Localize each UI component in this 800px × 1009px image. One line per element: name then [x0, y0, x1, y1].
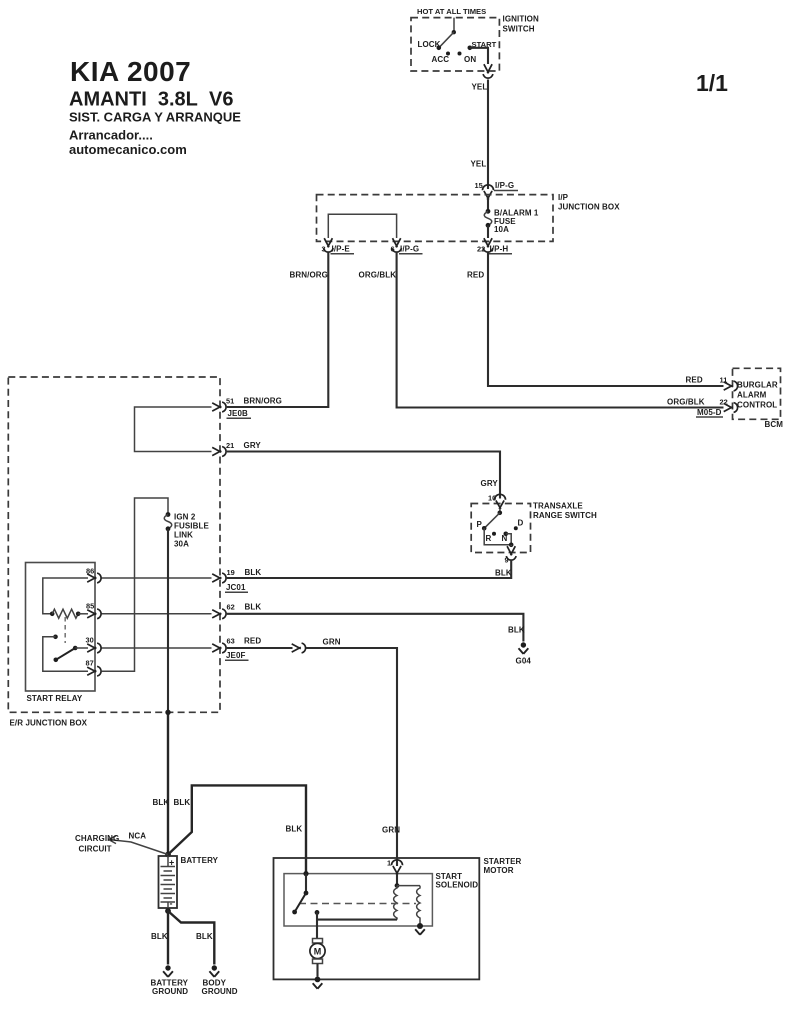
svg-text:87: 87: [86, 659, 94, 668]
svg-text:I/P: I/P: [558, 193, 569, 202]
starter motor M: [310, 939, 325, 977]
svg-text:JE0B: JE0B: [228, 409, 249, 418]
svg-text:IGN 2: IGN 2: [174, 513, 196, 522]
svg-text:1: 1: [387, 859, 391, 868]
svg-text:BLK: BLK: [153, 798, 170, 807]
wire BLK pin 62 to ground G04: [227, 614, 524, 642]
svg-text:BLK: BLK: [495, 569, 512, 578]
svg-text:IGNITION: IGNITION: [503, 15, 539, 24]
svg-text:I/P-G: I/P-G: [400, 245, 419, 254]
svg-text:9: 9: [505, 556, 509, 565]
wire RED to BCM pin 11: [467, 253, 724, 387]
transaxle range switch box: [471, 502, 597, 553]
svg-text:GRY: GRY: [481, 479, 499, 488]
svg-text:HOT AT ALL TIMES: HOT AT ALL TIMES: [417, 7, 486, 16]
connector BCM pin 22 M05-D: [667, 398, 738, 418]
solenoid mechanical link: [299, 903, 416, 905]
svg-text:G04: G04: [516, 657, 532, 666]
svg-text:KIA 2007: KIA 2007: [70, 56, 191, 87]
svg-text:YEL: YEL: [472, 83, 488, 92]
connector E/R pin 63 JE0F: [212, 637, 261, 661]
wire YEL vertical: [471, 80, 489, 190]
solenoid coil feed: [395, 874, 420, 888]
connector BCM pin 11: [686, 376, 738, 391]
svg-text:GRN: GRN: [323, 638, 341, 647]
svg-text:15: 15: [475, 181, 483, 190]
E/R junction box: [8, 377, 220, 728]
wire relay 87 to fusible link: [102, 498, 169, 671]
svg-text:M05-D: M05-D: [697, 408, 722, 417]
battery positive junction: [165, 852, 171, 858]
svg-text:JE0F: JE0F: [226, 651, 246, 660]
svg-text:JC01: JC01: [226, 583, 246, 592]
battery negative junction: [165, 908, 171, 914]
svg-text:BRN/ORG: BRN/ORG: [290, 271, 328, 280]
wire START to ignition connector: [470, 48, 488, 64]
svg-text:CONTROL: CONTROL: [737, 401, 777, 410]
wire battery to starter BLK: [168, 785, 306, 873]
relay pin 30 connector: [86, 636, 102, 653]
connector E/R pin 51 JE0B: [212, 397, 282, 419]
svg-text:BLK: BLK: [196, 932, 213, 941]
wire battery to battery ground: [151, 908, 168, 965]
svg-text:-: -: [170, 899, 173, 909]
svg-text:21: 21: [226, 441, 234, 450]
starter motor box: [274, 857, 522, 979]
svg-text:19: 19: [227, 568, 235, 577]
connector pin 22 I/P-H: [477, 238, 512, 254]
svg-text:ORG/BLK: ORG/BLK: [359, 271, 397, 280]
svg-text:10A: 10A: [494, 225, 509, 234]
I/P junction box: [317, 193, 621, 241]
svg-text:LINK: LINK: [174, 531, 193, 540]
svg-text:RED: RED: [686, 376, 703, 385]
wire fusible link down to battery: [167, 529, 169, 713]
start solenoid box: [284, 872, 478, 926]
connector E/R pin 19 JC01: [212, 568, 261, 592]
connector pin 3 I/P-E: [322, 238, 355, 254]
battery ground: [151, 965, 189, 996]
E/R internal wire pin 63 to relay 30: [102, 647, 212, 649]
relay pin 85 connector: [86, 602, 101, 619]
relay switch: [43, 635, 88, 672]
svg-text:6: 6: [391, 245, 395, 254]
E/R internal wire pin 62 to relay 85: [102, 613, 212, 615]
svg-text:M: M: [314, 947, 322, 957]
svg-text:BLK: BLK: [508, 626, 525, 635]
svg-text:63: 63: [227, 637, 235, 646]
start relay box: [26, 563, 96, 704]
connector E/R pin 21 GRY: [212, 441, 261, 456]
E/R internal wire pin 19 to relay 86: [102, 577, 212, 579]
ignition switch box: [411, 7, 539, 71]
svg-text:GRN: GRN: [382, 826, 400, 835]
relay coil wiring from 86: [43, 578, 88, 614]
svg-text:GROUND: GROUND: [202, 987, 238, 996]
svg-text:YEL: YEL: [471, 160, 487, 169]
svg-text:ORG/BLK: ORG/BLK: [667, 398, 705, 407]
E/R internal bus 51 to 21: [135, 407, 212, 452]
svg-text:1/1: 1/1: [696, 70, 728, 96]
junction at E/R box edge: [165, 710, 170, 715]
svg-text:LOCK: LOCK: [418, 40, 441, 49]
solenoid pull-in coil: [394, 886, 397, 920]
svg-text:ON: ON: [464, 55, 476, 64]
svg-text:ACC: ACC: [432, 55, 450, 64]
solenoid hold-in coil: [417, 886, 420, 926]
relay coil: [50, 609, 88, 618]
NCA charging circuit arrow: [75, 832, 168, 855]
svg-text:automecanico.com: automecanico.com: [69, 142, 187, 157]
svg-text:P: P: [477, 520, 483, 529]
svg-text:E/R JUNCTION BOX: E/R JUNCTION BOX: [10, 719, 88, 728]
svg-text:22: 22: [477, 245, 485, 254]
svg-text:START RELAY: START RELAY: [27, 694, 83, 703]
svg-text:BCM: BCM: [765, 420, 784, 429]
title block: [69, 56, 241, 157]
svg-text:62: 62: [227, 603, 235, 612]
connector pin 15 I/P-G: [475, 181, 519, 200]
battery: [159, 856, 219, 909]
svg-text:CIRCUIT: CIRCUIT: [79, 845, 112, 854]
ignition switch contacts: [418, 18, 497, 64]
svg-text:GROUND: GROUND: [152, 987, 188, 996]
svg-text:RED: RED: [244, 637, 261, 646]
burglar alarm control box BCM: [733, 368, 784, 429]
svg-text:STARTER: STARTER: [484, 857, 522, 866]
solenoid switch: [292, 871, 308, 914]
svg-text:BLK: BLK: [151, 932, 168, 941]
svg-text:I/P-E: I/P-E: [332, 245, 351, 254]
svg-text:SIST. CARGA Y ARRANQUE: SIST. CARGA Y ARRANQUE: [69, 110, 241, 125]
connector starter pin 1: [387, 859, 403, 875]
svg-text:Arrancador....: Arrancador....: [69, 128, 153, 143]
starter motor ground: [313, 977, 323, 989]
svg-text:3: 3: [322, 245, 326, 254]
svg-text:CHARGING: CHARGING: [75, 834, 119, 843]
I/P internal bus wire pins 3-6: [328, 214, 396, 238]
svg-text:+: +: [169, 858, 174, 868]
connector E/R pin 62: [212, 603, 261, 619]
svg-text:NCA: NCA: [129, 832, 147, 841]
svg-text:SOLENOID: SOLENOID: [436, 881, 479, 890]
svg-text:D: D: [518, 519, 524, 528]
svg-text:RED: RED: [467, 271, 484, 280]
svg-text:MOTOR: MOTOR: [484, 866, 514, 875]
wire battery to body ground: [168, 911, 214, 965]
svg-text:BLK: BLK: [245, 603, 262, 612]
connector pin 9 transaxle: [505, 546, 517, 564]
wire RED/GRN pin 63 to starter: [227, 638, 397, 867]
relay mechanical link: [64, 617, 66, 643]
svg-text:SWITCH: SWITCH: [503, 25, 535, 34]
svg-text:TRANSAXLE: TRANSAXLE: [533, 502, 583, 511]
svg-text:BATTERY: BATTERY: [181, 856, 219, 865]
svg-text:85: 85: [86, 602, 94, 611]
relay pin 86 connector: [86, 567, 101, 583]
svg-text:JUNCTION BOX: JUNCTION BOX: [558, 203, 620, 212]
wire GRY to transaxle range switch: [227, 452, 500, 503]
ground G04: [508, 626, 531, 666]
svg-text:FUSIBLE: FUSIBLE: [174, 522, 209, 531]
wire BRN/ORG to E/R pin 51: [227, 253, 328, 408]
svg-text:BLK: BLK: [245, 568, 262, 577]
connector ignition switch output: [483, 64, 493, 78]
svg-text:30A: 30A: [174, 540, 189, 549]
svg-text:R: R: [486, 534, 492, 543]
svg-text:BLK: BLK: [174, 798, 191, 807]
svg-text:AMANTI 3.8L V6: AMANTI 3.8L V6: [69, 89, 233, 111]
svg-text:N: N: [502, 534, 508, 543]
wire BLK labels above battery: [153, 798, 191, 807]
svg-text:51: 51: [226, 397, 234, 406]
wire BLK pin 9 to E/R pin 19: [227, 560, 512, 578]
transaxle switch arm and contacts: [477, 509, 524, 548]
wire ORG/BLK to BCM pin 22: [359, 253, 724, 408]
svg-text:BRN/ORG: BRN/ORG: [244, 397, 282, 406]
svg-text:BURGLAR: BURGLAR: [737, 381, 778, 390]
connector pin 6 I/P-G: [391, 238, 423, 254]
svg-text:GRY: GRY: [244, 441, 262, 450]
connector pin 10 transaxle: [495, 494, 506, 509]
svg-text:BLK: BLK: [286, 825, 303, 834]
fusible link IGN 2 30A: [164, 512, 209, 548]
solenoid output contact to motor: [315, 910, 397, 939]
svg-text:I/P-G: I/P-G: [495, 181, 514, 190]
svg-text:ALARM: ALARM: [737, 391, 767, 400]
solenoid coil ground: [415, 923, 425, 935]
body ground: [202, 965, 238, 996]
svg-text:I/P-H: I/P-H: [490, 245, 509, 254]
relay pin 87 connector: [86, 659, 102, 677]
svg-text:RANGE SWITCH: RANGE SWITCH: [533, 511, 597, 520]
svg-text:30: 30: [86, 636, 94, 645]
fuse B/ALARM 1 10A: [484, 198, 539, 239]
